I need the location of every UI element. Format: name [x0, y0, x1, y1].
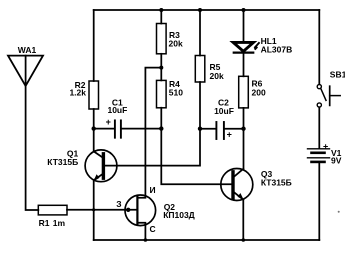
svg-text:20k: 20k — [169, 39, 183, 49]
svg-text:WA1: WA1 — [18, 45, 37, 55]
svg-text:З: З — [116, 199, 121, 209]
svg-text:+: + — [323, 142, 328, 152]
svg-text:И: И — [150, 185, 156, 195]
svg-text:200: 200 — [252, 88, 266, 98]
svg-text:AL307B: AL307B — [261, 44, 293, 54]
svg-text:С: С — [150, 224, 156, 234]
svg-text:+: + — [106, 117, 111, 127]
svg-text:1m: 1m — [53, 218, 66, 228]
svg-text:1.2k: 1.2k — [69, 87, 86, 97]
svg-text:20k: 20k — [210, 71, 224, 81]
svg-text:КП103Д: КП103Д — [163, 210, 195, 220]
svg-text:10uF: 10uF — [214, 106, 234, 116]
svg-text:КТ315Б: КТ315Б — [47, 157, 78, 167]
svg-text:SB1: SB1 — [330, 70, 345, 80]
svg-text:КТ315Б: КТ315Б — [261, 177, 292, 187]
svg-text:+: + — [227, 129, 232, 139]
svg-text:10uF: 10uF — [107, 105, 127, 115]
svg-text:510: 510 — [169, 88, 183, 98]
svg-text:9V: 9V — [331, 155, 342, 165]
svg-text:R1: R1 — [39, 218, 50, 228]
